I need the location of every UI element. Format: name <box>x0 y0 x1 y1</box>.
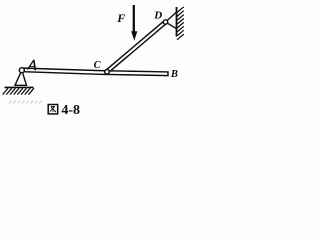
svg-text:D: D <box>153 10 162 22</box>
svg-text:F: F <box>116 11 125 25</box>
svg-text:B: B <box>170 69 178 80</box>
svg-text:4-8: 4-8 <box>61 103 80 118</box>
svg-text:C: C <box>94 60 102 71</box>
